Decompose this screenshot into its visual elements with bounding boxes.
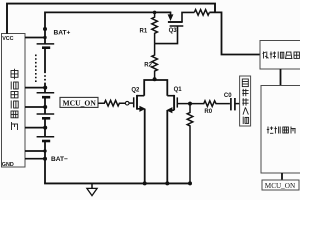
svg-text:Q3: Q3 <box>169 28 178 34</box>
wire tap3 <box>25 106 45 108</box>
wire stack bottom to ground rail <box>44 141 46 183</box>
node R2 bottom <box>153 77 157 81</box>
vertical text 目标接入端 (pseudo-glyphs) <box>242 79 248 124</box>
Q1 source lead <box>170 109 174 111</box>
node R1 top <box>153 11 157 15</box>
node BAT- dot <box>43 157 47 161</box>
node Q1 gate junction <box>188 102 192 106</box>
Q2 gate bar <box>133 97 135 107</box>
svg-text:BAT−: BAT− <box>51 156 68 163</box>
ground rail <box>44 182 190 184</box>
dotted ellipsis line (more cells) <box>35 55 37 83</box>
Q2 source arrowhead <box>139 106 145 112</box>
node rail Q1 <box>165 181 169 185</box>
svg-text:BAT+: BAT+ <box>54 29 71 36</box>
Q1 source arrowhead <box>166 107 172 113</box>
wire VCC net: box top to top rail across to right <box>7 4 215 34</box>
Q1 channel bar <box>173 95 175 110</box>
node open-circle terminal <box>125 101 129 105</box>
node tap1 <box>43 36 46 39</box>
wire drain rail of Q2/Q1 <box>144 80 167 96</box>
svg-text:R2: R2 <box>144 62 152 68</box>
node BAT+ dot <box>43 27 47 31</box>
resistor Rtop (unlabeled, to regulator) <box>194 10 209 16</box>
node tap3 <box>43 105 47 109</box>
Q3 gate lead down and across to R1/R2 node <box>155 26 178 44</box>
Q1 gate bar <box>176 97 178 107</box>
svg-text:MCU_ON: MCU_ON <box>265 182 296 190</box>
battery monitor chip box U_mon <box>2 34 26 168</box>
ground symbol <box>87 183 97 195</box>
node rail Q2 <box>143 181 147 185</box>
wire regulator to control chip <box>280 69 282 86</box>
Q3 gate bar <box>170 25 184 27</box>
svg-text:Q1: Q1 <box>174 87 183 93</box>
wire stack segment with dotted omission <box>44 48 46 72</box>
text 线性稳压器 (pseudo-glyphs) <box>263 52 300 59</box>
svg-text:GND: GND <box>2 162 14 168</box>
node tap2 <box>43 86 47 90</box>
resistor Rg (gate series, unlabeled) <box>98 100 125 106</box>
MCU_ON box (left) <box>60 97 98 107</box>
wire stack segment <box>44 118 46 136</box>
resistor Rpd (gate pulldown, unlabeled) <box>187 104 193 184</box>
Q2 source lead <box>137 108 141 110</box>
Q3 drain lead <box>182 12 194 22</box>
svg-text:Q2: Q2 <box>131 87 140 93</box>
Q2 channel bar <box>136 95 138 110</box>
target-terminal box 目标接入端 <box>240 76 251 126</box>
svg-text:R1: R1 <box>140 29 148 35</box>
Q3 source arrow from BAT+ rail <box>170 12 172 15</box>
Q1 gate lead <box>177 103 190 105</box>
wire tap1 box to stack top <box>25 37 45 39</box>
wire C0 to target box <box>235 103 240 105</box>
svg-text:VCC: VCC <box>2 36 13 42</box>
Q3 arrowhead <box>168 14 174 21</box>
wire BAT+ riser and second rail <box>45 12 171 44</box>
vertical text 电池监测芯片 (pseudo-glyphs) <box>11 69 18 130</box>
wire control chip to MCU_ON <box>281 173 283 180</box>
wire BAT- tap <box>25 158 45 160</box>
Q1 drain lead <box>167 95 174 97</box>
control chip box 控制芯片 <box>261 86 302 174</box>
svg-text:MCU_ON: MCU_ON <box>63 99 97 108</box>
wire stack segment <box>44 97 46 114</box>
Q3 channel bar <box>168 21 183 23</box>
transistor Q3 (P-MOSFET) <box>155 12 195 43</box>
Q2 drain lead <box>137 95 144 97</box>
linear regulator box 线性稳压器 <box>260 41 302 70</box>
wire tap5 <box>25 150 45 152</box>
transistor Q2 (N-MOSFET left) <box>129 95 145 183</box>
MCU_ON box (right) <box>262 180 299 190</box>
wire tap2 <box>25 87 45 89</box>
transistor Q1 (N-MOSFET right) <box>167 95 190 183</box>
resistor R2 <box>152 44 158 80</box>
Q1 source down wire <box>166 110 168 183</box>
node tap4 <box>43 126 47 130</box>
capacitor C0 <box>231 98 235 110</box>
battery cell B4 <box>37 137 55 141</box>
resistor R1 <box>152 12 158 43</box>
wire regulator feed <box>209 12 260 54</box>
battery cell B2 <box>37 93 55 97</box>
battery cell B1 <box>37 44 55 48</box>
svg-text:C0: C0 <box>224 93 232 99</box>
Q2 gate lead <box>129 102 134 104</box>
text 控制芯片 (pseudo-glyphs) <box>267 127 296 134</box>
resistor R0 <box>190 101 230 107</box>
Q2 source down wire <box>144 109 146 184</box>
node tap5 <box>43 149 46 152</box>
battery cell B3 <box>37 114 55 118</box>
node rail Rpd <box>188 181 192 185</box>
svg-text:R0: R0 <box>204 109 212 115</box>
wire tap4 <box>25 127 45 129</box>
